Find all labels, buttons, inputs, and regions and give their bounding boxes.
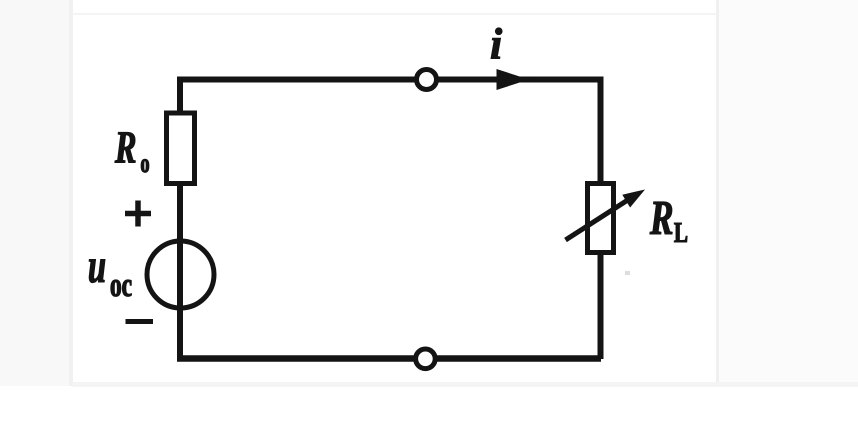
figure top edge line xyxy=(72,13,717,15)
plus sign xyxy=(125,201,151,227)
figure bottom edge line xyxy=(72,382,858,387)
label i xyxy=(491,28,502,59)
node terminal top xyxy=(417,70,437,90)
right pale margin xyxy=(719,0,858,386)
label Uoc xyxy=(89,260,131,297)
wire: top horizontal xyxy=(177,77,601,83)
label R0 xyxy=(115,132,149,172)
minus sign xyxy=(126,319,154,324)
figure right edge line xyxy=(716,0,719,386)
resistor RL body xyxy=(588,184,614,253)
variable-resistor arrow line xyxy=(566,196,635,240)
left gray margin xyxy=(0,0,69,386)
wire: left vertical lower through source xyxy=(177,184,183,359)
source Uoc circle xyxy=(147,241,214,308)
wire: left vertical upper xyxy=(177,77,183,117)
speck artifact xyxy=(625,271,630,275)
resistor R0 body xyxy=(167,113,195,184)
wire: right vertical xyxy=(598,77,604,360)
wire: bottom horizontal xyxy=(177,355,601,362)
node terminal bottom xyxy=(416,349,436,369)
label RL xyxy=(650,202,687,242)
current arrow head xyxy=(497,69,530,90)
variable-resistor arrow head xyxy=(622,190,645,208)
